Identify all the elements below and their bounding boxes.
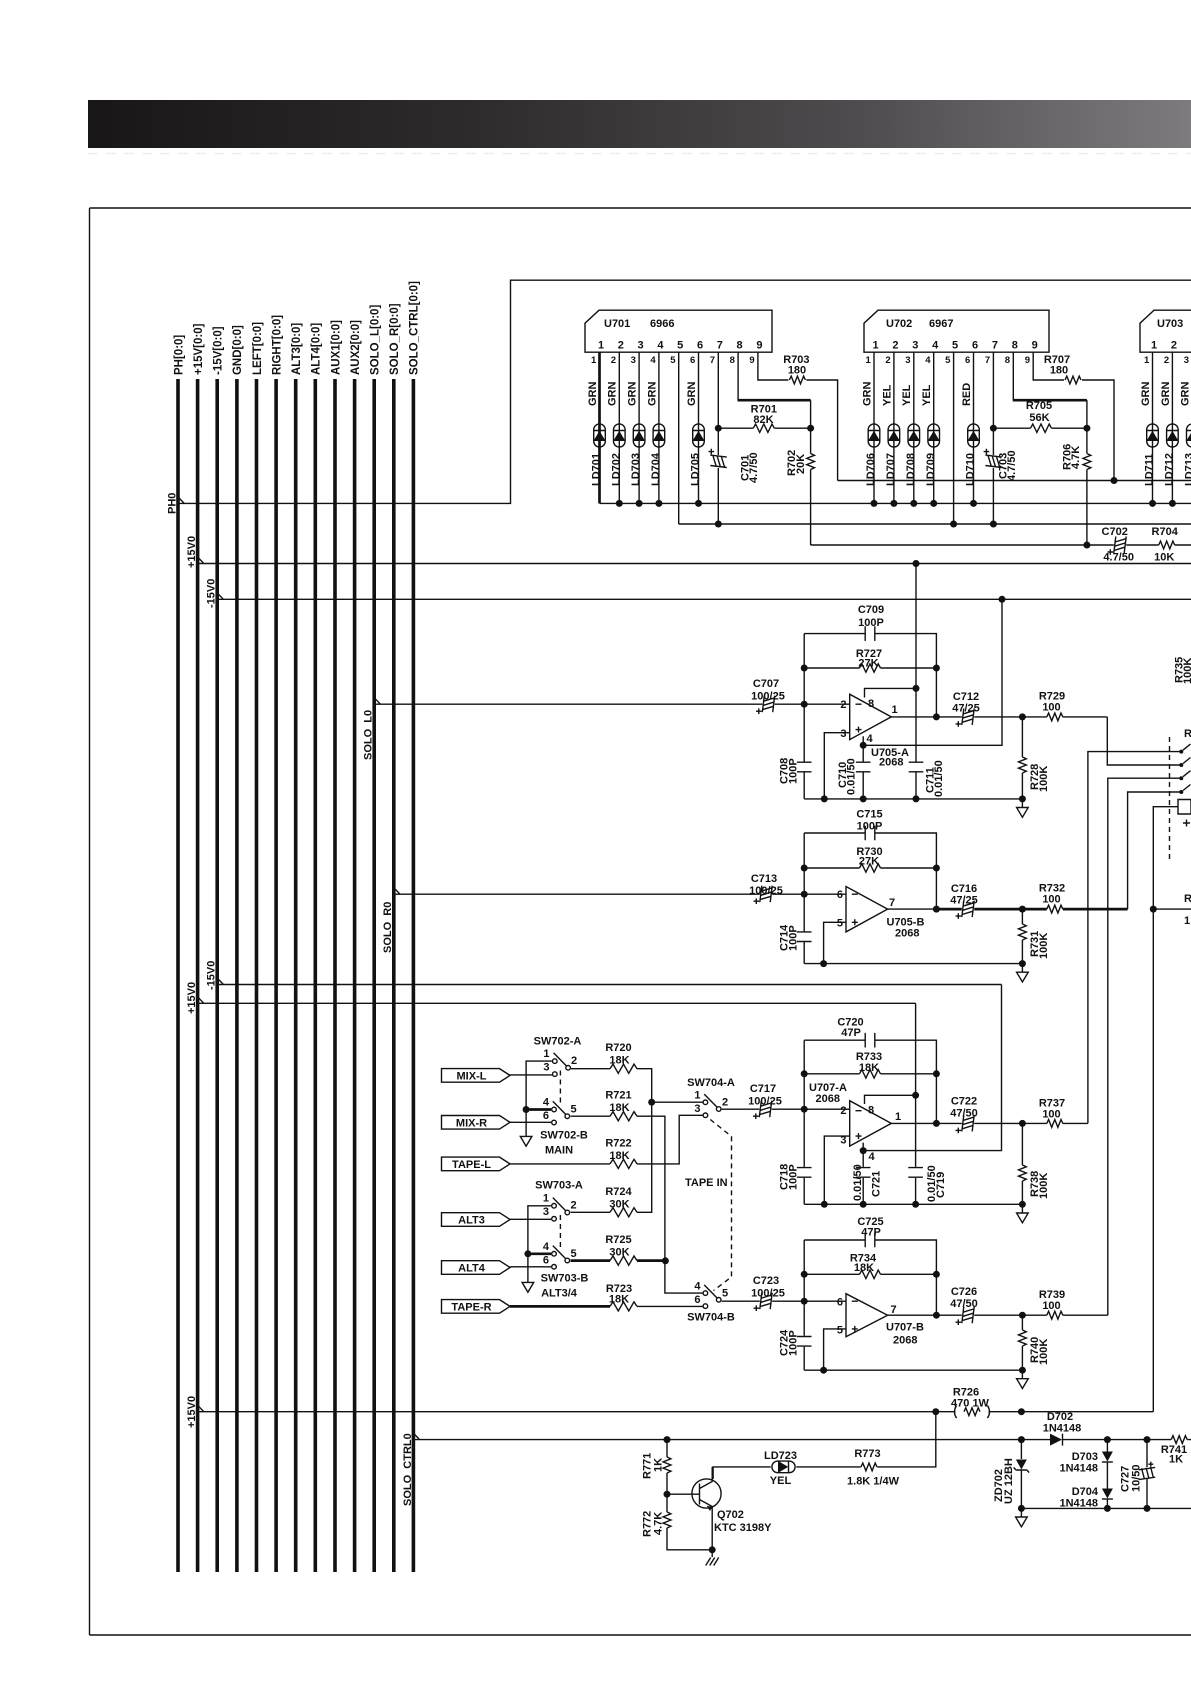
junction LD712/rail — [1169, 500, 1176, 507]
node contact4 feed (R732 net) — [1128, 792, 1180, 909]
junction input/C718 — [801, 1106, 808, 1113]
svg-text:SOLO_L0: SOLO_L0 — [363, 710, 375, 760]
svg-text:1: 1 — [1144, 355, 1150, 366]
bus line PH — [176, 379, 180, 1572]
svg-text:C717: C717 — [750, 1083, 776, 1095]
svg-text:LD702: LD702 — [610, 453, 622, 486]
svg-text:2: 2 — [1164, 355, 1169, 366]
junction feedback/output B — [933, 906, 940, 913]
wire pot bottom to +15V rail — [1153, 807, 1178, 1412]
svg-text:-15V[0:0]: -15V[0:0] — [213, 326, 225, 375]
svg-text:4.7/50: 4.7/50 — [1006, 450, 1018, 481]
LED LD705 — [693, 424, 705, 447]
net label SOLO_R0 tap — [394, 888, 400, 895]
svg-text:47P: 47P — [861, 1227, 881, 1239]
svg-text:LD708: LD708 — [905, 453, 917, 486]
svg-text:1N4148: 1N4148 — [1059, 1463, 1098, 1475]
svg-text:56K: 56K — [1029, 412, 1049, 424]
input flag MIX-L — [442, 1069, 511, 1083]
svg-text:GRN: GRN — [1140, 382, 1152, 407]
capacitor C709 100P — [865, 626, 875, 641]
junction C721/gnd rail — [860, 1201, 867, 1208]
bus line SOLO_L — [372, 379, 376, 1572]
svg-text:1K: 1K — [1169, 1454, 1183, 1466]
svg-text:TAPE IN: TAPE IN — [685, 1177, 728, 1189]
wire +15V to LD723/R773 — [713, 1412, 936, 1479]
capacitor C701 4.7/50 — [709, 449, 727, 468]
svg-text:6: 6 — [837, 889, 843, 901]
svg-text:6: 6 — [543, 1255, 549, 1267]
junction C727/gnd — [1144, 1505, 1151, 1512]
wire U705-A pin3 to gnd rail — [824, 733, 849, 799]
junction D704/gnd — [1104, 1505, 1111, 1512]
wire U707-B output — [888, 1314, 1108, 1316]
svg-text:KTC 3198Y: KTC 3198Y — [714, 1522, 772, 1534]
svg-text:47/50: 47/50 — [950, 1298, 978, 1310]
svg-text:U701: U701 — [604, 318, 630, 330]
svg-text:100P: 100P — [788, 1164, 800, 1190]
svg-text:ALT4[0:0]: ALT4[0:0] — [311, 323, 323, 375]
junction -15V0 feed U705 — [999, 596, 1006, 603]
svg-text:D703: D703 — [1072, 1451, 1098, 1463]
svg-text:180: 180 — [788, 365, 806, 377]
op-amp U705-A — [850, 694, 892, 739]
svg-text:SOLO_R0: SOLO_R0 — [382, 902, 394, 953]
wire U705-A left vertical — [803, 634, 805, 799]
switch SW702-B — [552, 1101, 570, 1125]
svg-text:100: 100 — [1042, 1109, 1060, 1121]
junction R705/R706 — [1083, 425, 1090, 432]
junction ZD702/ctrl — [1018, 1436, 1025, 1443]
svg-text:18K: 18K — [609, 1055, 629, 1067]
junction LD704/rail — [655, 500, 662, 507]
svg-text:R721: R721 — [605, 1090, 631, 1102]
svg-text:100P: 100P — [788, 1330, 800, 1356]
wire SW704-B pin5 to U707-B input — [722, 1300, 846, 1302]
svg-text:2: 2 — [840, 1105, 846, 1117]
capacitor C712 47/25 — [956, 708, 975, 726]
svg-text:4: 4 — [543, 1097, 550, 1109]
input flag ALT3 — [442, 1213, 511, 1227]
svg-text:SW703-B: SW703-B — [541, 1273, 589, 1285]
transistor Q702 KTC3198Y — [692, 1479, 721, 1508]
net label SOLO_L0 tap — [374, 698, 380, 705]
svg-text:GRN: GRN — [627, 382, 639, 407]
wire U705-A gnd rail — [804, 798, 1022, 800]
ground SW702 — [520, 1136, 532, 1146]
resistor R741 1K (clipped) — [1171, 1436, 1187, 1444]
svg-text:8: 8 — [1005, 355, 1010, 366]
wire U701 pin9 to R703 — [758, 352, 838, 480]
bus line -15V — [215, 379, 219, 1572]
svg-text:0.01/50: 0.01/50 — [926, 1165, 938, 1202]
svg-text:100/25: 100/25 — [751, 691, 785, 703]
svg-text:0.01/50: 0.01/50 — [933, 760, 945, 797]
resistor R729 100 — [1047, 713, 1063, 721]
svg-text:C721: C721 — [871, 1171, 883, 1197]
op-amp U705-B — [846, 887, 888, 932]
wire U707-A feedback loop top — [804, 1040, 936, 1123]
svg-text:47/25: 47/25 — [952, 703, 980, 715]
svg-text:7: 7 — [891, 1304, 897, 1316]
svg-text:4: 4 — [694, 1281, 701, 1293]
wire R702 net rail — [811, 544, 1191, 546]
svg-text:4: 4 — [657, 340, 664, 352]
resistor R728 100K — [1021, 717, 1023, 799]
svg-text:-15V0: -15V0 — [206, 579, 218, 608]
svg-text:LD709: LD709 — [925, 453, 937, 486]
resistor R740 100K — [1021, 1315, 1023, 1370]
junction +15V0 feed U705 — [913, 560, 920, 567]
svg-text:7: 7 — [889, 897, 895, 909]
svg-text:C709: C709 — [858, 604, 884, 616]
svg-text:1.8K 1/4W: 1.8K 1/4W — [847, 1476, 900, 1488]
capacitor C725 47P — [865, 1233, 875, 1248]
svg-text:R: R — [1184, 728, 1191, 740]
wire U707-A pin3 to gnd rail — [824, 1136, 849, 1204]
ground SW703 — [522, 1282, 534, 1292]
resistor R773 1.8K 1/4W — [861, 1463, 877, 1471]
svg-text:9: 9 — [756, 340, 762, 352]
junction R733 left — [801, 1070, 808, 1077]
pot R735 dashed linkage — [1169, 737, 1171, 860]
zener ZD702 UZ12BH — [1020, 1440, 1022, 1509]
svg-text:R705: R705 — [1026, 400, 1052, 412]
wire U707-A pin8 to +15V — [865, 1095, 916, 1104]
svg-text:GRN: GRN — [1160, 382, 1172, 407]
svg-text:U707-B: U707-B — [886, 1322, 924, 1334]
junction output/R740 — [1019, 1312, 1026, 1319]
svg-text:9: 9 — [1032, 340, 1038, 352]
wire U705-B feedback loop top — [804, 833, 936, 909]
svg-text:1: 1 — [591, 355, 597, 366]
svg-text:0.01/50: 0.01/50 — [852, 1164, 864, 1201]
resistor R726 470 1W — [964, 1408, 980, 1416]
svg-text:3: 3 — [840, 728, 846, 740]
capacitor C719 0.01/50 — [908, 1168, 923, 1178]
svg-text:5: 5 — [837, 918, 843, 930]
bus line LEFT — [255, 379, 259, 1572]
svg-text:5: 5 — [722, 1288, 728, 1300]
ground ZD702 — [1020, 1508, 1022, 1516]
junction input/C714 — [801, 891, 808, 898]
svg-text:C722: C722 — [951, 1096, 977, 1108]
svg-text:GRN: GRN — [1180, 382, 1191, 407]
svg-text:LD705: LD705 — [690, 453, 702, 486]
svg-text:GRN: GRN — [587, 382, 599, 407]
junction LD711/rail — [1149, 500, 1156, 507]
LED LD706 wire — [873, 352, 875, 503]
junction output/R731 — [1019, 906, 1026, 913]
LED LD706 — [868, 424, 880, 447]
svg-text:6967: 6967 — [929, 318, 953, 330]
LED LD703 wire — [638, 352, 640, 503]
svg-text:D702: D702 — [1047, 1411, 1073, 1423]
LED LD723 YEL — [772, 1461, 795, 1473]
capacitor C711 0.01/50 — [909, 762, 924, 772]
svg-text:27K: 27K — [858, 658, 878, 670]
wire U701 pin8 (bold) — [737, 352, 739, 400]
wire pin5 rail — [679, 523, 1191, 525]
svg-text:RED: RED — [961, 383, 973, 406]
wire U707-B feedback loop top — [804, 1240, 936, 1315]
junction R730 right — [933, 865, 940, 872]
svg-text:10K: 10K — [1154, 552, 1174, 564]
svg-text:2068: 2068 — [816, 1093, 840, 1105]
junction LD708/rail — [910, 500, 917, 507]
junction pin8/+15V vert — [913, 685, 920, 692]
capacitor C708 100P — [797, 762, 812, 772]
svg-text:+15V0: +15V0 — [186, 982, 198, 1014]
svg-text:R722: R722 — [605, 1137, 631, 1149]
svg-text:LD706: LD706 — [865, 453, 877, 486]
wire U701 pin5 to rail — [678, 352, 680, 524]
junction pin5/gnd rail B2 — [820, 1367, 827, 1374]
svg-text:2: 2 — [892, 340, 898, 352]
svg-text:20K: 20K — [795, 454, 807, 474]
wire +15V vertical / C719 — [915, 1003, 917, 1204]
mechanical link SW702 (dashed) — [559, 1071, 561, 1104]
svg-text:AUX2[0:0]: AUX2[0:0] — [350, 320, 362, 375]
wire R724 out — [637, 1102, 652, 1212]
LED LD713 — [1187, 424, 1191, 447]
bus line +15V — [196, 379, 200, 1572]
svg-text:18K: 18K — [609, 1102, 629, 1114]
resistor R722 18K — [510, 1163, 637, 1165]
svg-text:6966: 6966 — [650, 318, 674, 330]
svg-text:2: 2 — [571, 1055, 577, 1067]
svg-text:SOLO_CTRL[0:0]: SOLO_CTRL[0:0] — [409, 281, 421, 375]
LED LD710 — [968, 424, 980, 447]
svg-text:SOLO_R[0:0]: SOLO_R[0:0] — [389, 303, 401, 375]
svg-text:R725: R725 — [605, 1234, 631, 1246]
junction input/C724 — [801, 1298, 808, 1305]
wire U707-A left vertical / C718 — [803, 1040, 805, 1204]
svg-text:1: 1 — [543, 1193, 549, 1205]
svg-text:2: 2 — [611, 355, 616, 366]
svg-text:SOLO_L[0:0]: SOLO_L[0:0] — [370, 305, 382, 375]
svg-text:U702: U702 — [886, 318, 912, 330]
svg-text:5: 5 — [952, 340, 958, 352]
svg-text:7: 7 — [710, 355, 715, 366]
svg-text:100P: 100P — [788, 925, 800, 951]
wire SOLO_R0 input line — [394, 893, 846, 895]
svg-text:100: 100 — [1042, 1300, 1060, 1312]
wire SOLO_L0 input line — [374, 703, 850, 705]
svg-text:1: 1 — [694, 1090, 700, 1102]
svg-text:4.7K: 4.7K — [653, 1512, 665, 1535]
op-amp U707-B — [846, 1294, 888, 1337]
wire bottom analog gnd rail — [1021, 1507, 1191, 1509]
LED LD702 wire — [618, 352, 620, 503]
junction emitter/R772 — [709, 1546, 716, 1553]
svg-text:C715: C715 — [856, 809, 882, 821]
svg-text:5: 5 — [571, 1248, 577, 1260]
svg-text:30K: 30K — [609, 1247, 629, 1259]
wire U705-A pin4 to -15V — [863, 599, 1002, 745]
svg-text:9: 9 — [749, 355, 754, 366]
svg-text:4.7K: 4.7K — [1070, 446, 1082, 469]
svg-text:18K: 18K — [854, 1262, 874, 1274]
resistor R721 18K — [571, 1115, 638, 1117]
LED LD704 — [653, 424, 665, 447]
pot R735 element (clipped) — [1178, 800, 1191, 815]
svg-text:4: 4 — [869, 1151, 876, 1163]
LED LD709 wire — [933, 352, 935, 503]
junction LD707/rail — [890, 500, 897, 507]
wire PH0 net to top edge — [178, 280, 1191, 503]
junction pot/R736 line — [1150, 906, 1157, 913]
bus line GND — [235, 379, 239, 1572]
capacitor C714 100P — [797, 932, 812, 942]
svg-text:4: 4 — [543, 1241, 550, 1253]
LED LD708 wire — [913, 352, 915, 503]
svg-text:4: 4 — [932, 340, 939, 352]
net label -15V0 tap — [217, 593, 223, 600]
LED LD703 — [633, 424, 645, 447]
svg-text:18K: 18K — [859, 1062, 879, 1074]
wire SW702-A pin1 to gnd vertical — [526, 1061, 552, 1136]
svg-text:100/25: 100/25 — [749, 885, 783, 897]
wire U705-B output — [888, 908, 937, 910]
LED LD711 wire — [1152, 352, 1154, 503]
net label +15V0 tap — [198, 557, 204, 564]
junction C710/gnd rail — [860, 795, 867, 802]
wire R703 net rail — [838, 480, 1191, 482]
wire U707-A output — [891, 1122, 1088, 1124]
wire U702 pin7 / C703 branch — [992, 352, 994, 524]
svg-text:2: 2 — [885, 355, 890, 366]
capacitor C717 100/25 — [753, 1101, 772, 1119]
svg-text:SW702-B: SW702-B — [540, 1130, 588, 1142]
capacitor C720 47P — [865, 1033, 875, 1048]
junction R730 left — [801, 865, 808, 872]
capacitor C727 10/50 — [1146, 1440, 1148, 1509]
LED LD707 wire — [893, 352, 895, 503]
svg-text:ALT3[0:0]: ALT3[0:0] — [291, 323, 303, 375]
junction pin4 node A2 — [860, 1147, 867, 1154]
LED LD712 wire — [1171, 352, 1173, 503]
svg-text:100: 100 — [1042, 894, 1060, 906]
diode D703 1N4148 — [1106, 1440, 1108, 1489]
svg-text:YEL: YEL — [901, 384, 913, 406]
svg-text:7: 7 — [985, 355, 990, 366]
svg-text:5: 5 — [677, 340, 683, 352]
wire SW702-B pin4 (bold) — [527, 1108, 551, 1111]
mechanical link SW703 (dashed) — [559, 1215, 561, 1248]
LED LD710 wire — [973, 352, 975, 503]
junction feedback/output — [933, 713, 940, 720]
IC U703 — [1140, 310, 1191, 352]
resistor R738 100K — [1021, 1123, 1023, 1204]
bus line AUX1 — [333, 379, 337, 1572]
svg-text:8: 8 — [737, 340, 743, 352]
capacitor C703 4.7/50 — [984, 449, 1002, 468]
svg-text:GRN: GRN — [607, 382, 619, 407]
resistor R720 18K — [571, 1068, 637, 1070]
resistor R707 180 — [1065, 376, 1081, 384]
resistor R705 56K — [993, 427, 1087, 429]
svg-text:6: 6 — [837, 1297, 843, 1309]
junction R706/rail — [1083, 542, 1090, 549]
svg-text:+15V[0:0]: +15V[0:0] — [193, 323, 205, 375]
svg-text:GND[0:0]: GND[0:0] — [232, 325, 244, 375]
resistor R727 27K — [804, 667, 936, 669]
junction output/R738 — [1019, 1120, 1026, 1127]
capacitor C707 100/25 — [756, 696, 775, 714]
resistor R701 82K — [718, 427, 810, 429]
svg-text:6: 6 — [694, 1294, 700, 1306]
svg-text:3: 3 — [905, 355, 910, 366]
wire U707-A gnd rail — [804, 1203, 1022, 1205]
wire MIX-L to SW702-A pin3 — [510, 1074, 552, 1076]
svg-text:ALT3/4: ALT3/4 — [541, 1288, 578, 1300]
capacitor C723 100/25 — [754, 1293, 773, 1311]
svg-text:UZ 12BH: UZ 12BH — [1003, 1458, 1015, 1504]
node contact1 feed (R737 net) — [1088, 752, 1180, 1124]
junction LD703/rail — [636, 500, 643, 507]
svg-text:MAIN: MAIN — [545, 1145, 573, 1157]
svg-text:LD710: LD710 — [965, 453, 977, 486]
svg-text:7: 7 — [717, 340, 723, 352]
wire LED cathode rail — [600, 502, 1191, 504]
svg-text:C723: C723 — [753, 1275, 779, 1287]
junction LD709/rail — [930, 500, 937, 507]
svg-text:3: 3 — [694, 1103, 700, 1115]
junction feedback/output A2 — [933, 1120, 940, 1127]
svg-text:5: 5 — [837, 1325, 843, 1337]
svg-text:4: 4 — [925, 355, 931, 366]
junction C719/gnd rail — [912, 1201, 919, 1208]
svg-text:3: 3 — [543, 1062, 549, 1074]
svg-text:100K: 100K — [1038, 1339, 1050, 1365]
svg-text:4.7/50: 4.7/50 — [748, 452, 760, 483]
ground U705-A — [1021, 799, 1023, 807]
junction feedback/output B2 — [933, 1312, 940, 1319]
wire MIX-R to SW702-B pin6 — [510, 1121, 551, 1123]
junction R701/R702 — [807, 425, 814, 432]
junction R727 left — [801, 665, 808, 672]
svg-text:+15V0: +15V0 — [186, 1396, 198, 1428]
bus line SOLO_CTRL — [412, 379, 416, 1572]
wire -15V0 rail — [217, 598, 1191, 600]
svg-text:100P: 100P — [858, 617, 884, 629]
svg-text:D704: D704 — [1072, 1486, 1099, 1498]
svg-text:SW703-A: SW703-A — [535, 1180, 583, 1192]
op-amp U707-A — [850, 1101, 892, 1146]
svg-text:MIX-L: MIX-L — [457, 1070, 487, 1082]
junction base node — [664, 1491, 671, 1498]
wire +15V0 bottom rail — [198, 1411, 1154, 1413]
junction U702 pin5/rail — [950, 521, 957, 528]
junction R733 right — [933, 1070, 940, 1077]
diode D704 1N4148 — [1106, 1489, 1108, 1509]
svg-text:3: 3 — [1184, 355, 1189, 366]
capacitor C726 47/50 — [956, 1307, 975, 1325]
wire U702 pin5 to rail — [953, 352, 955, 524]
junction C701/rail — [715, 521, 722, 528]
junction C701/R701 — [715, 425, 722, 432]
svg-text:GRN: GRN — [861, 382, 873, 407]
resistor R724 30K — [571, 1211, 638, 1213]
wire SW703-B pin4 (bold) — [529, 1252, 552, 1255]
svg-text:180: 180 — [1050, 365, 1068, 377]
svg-text:SW704-B: SW704-B — [687, 1312, 735, 1324]
svg-text:U703: U703 — [1157, 318, 1183, 330]
wire U705-A output — [891, 716, 1107, 718]
svg-text:RIGHT[0:0]: RIGHT[0:0] — [271, 315, 283, 375]
ground U707-A — [1021, 1204, 1023, 1213]
